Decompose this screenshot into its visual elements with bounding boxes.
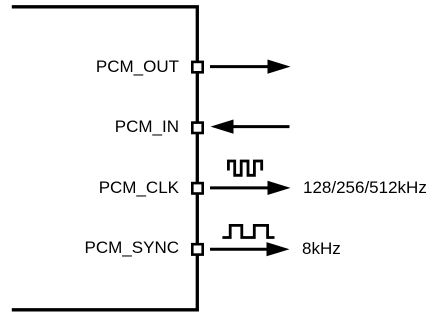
- wire arrow PCM_IN (input, points left): [211, 120, 290, 134]
- svg-text:PCM_IN: PCM_IN: [115, 117, 179, 136]
- chip outline (open box: top, right, bottom edges): [12, 7, 198, 310]
- pin square PCM_IN: [192, 123, 202, 133]
- svg-text:PCM_OUT: PCM_OUT: [96, 57, 179, 76]
- pin square PCM_SYNC: [192, 244, 202, 254]
- pin square PCM_CLK: [192, 183, 202, 193]
- svg-text:128/256/512kHz: 128/256/512kHz: [303, 178, 427, 197]
- clock waveform icon (square wave, 3 pulses): [228, 161, 261, 175]
- svg-text:8kHz: 8kHz: [302, 239, 341, 258]
- svg-text:PCM_CLK: PCM_CLK: [99, 178, 180, 197]
- svg-text:PCM_SYNC: PCM_SYNC: [85, 238, 179, 257]
- wire arrow PCM_SYNC (output, points right): [210, 242, 290, 256]
- sync waveform icon (frame pulse, 2 pulses): [222, 225, 274, 237]
- pin square PCM_OUT: [192, 62, 202, 72]
- wire arrow PCM_CLK (output, points right): [210, 181, 291, 195]
- wire arrow PCM_OUT (output, points right): [210, 60, 291, 74]
